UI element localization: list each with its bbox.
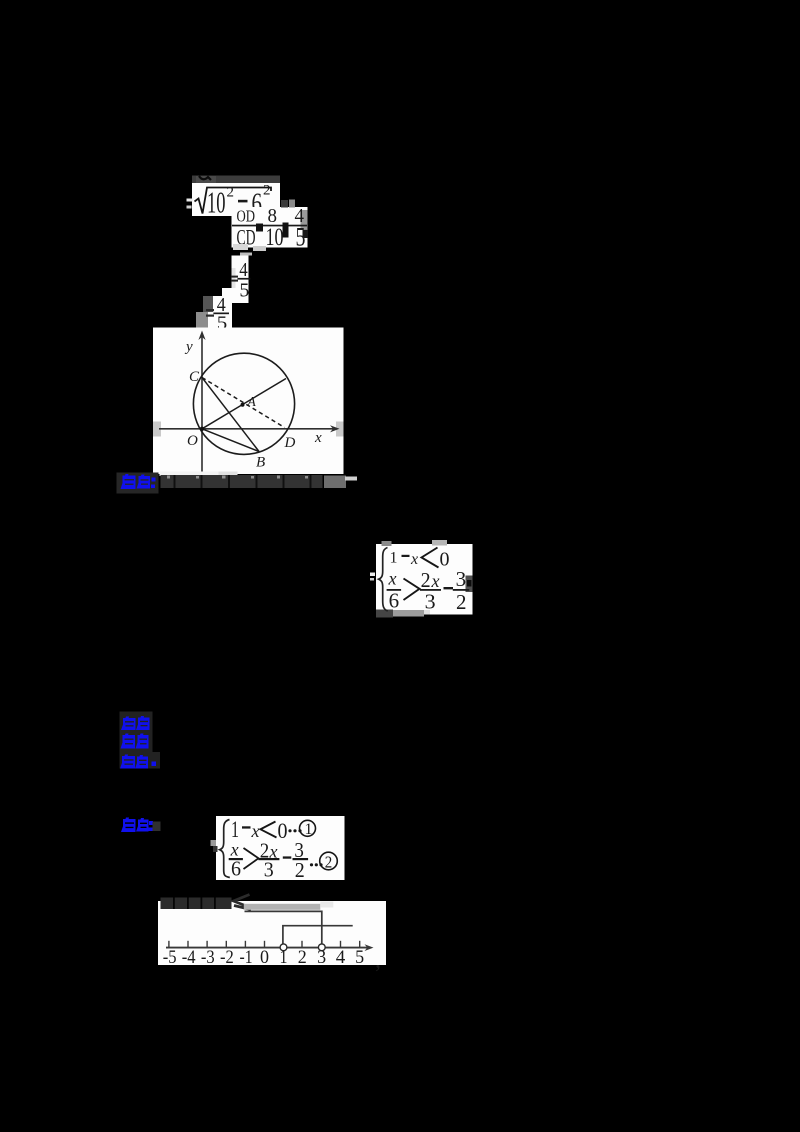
glyph row straddling top edge bbox=[161, 898, 232, 910]
chord O to upper right (diameter) bbox=[202, 379, 286, 429]
svg-text:2: 2 bbox=[295, 858, 305, 882]
svg-text:0: 0 bbox=[440, 549, 450, 571]
system2 brace bbox=[220, 820, 230, 878]
squiggle in strip bbox=[199, 176, 211, 180]
svg-text:6: 6 bbox=[389, 589, 400, 613]
radical sign bbox=[195, 188, 272, 214]
gray text row right of blue label bbox=[160, 472, 219, 477]
number line white box bbox=[158, 901, 386, 965]
chord C to B bbox=[202, 378, 259, 452]
O dot bbox=[200, 427, 204, 431]
svg-text:3: 3 bbox=[317, 948, 326, 968]
svg-text:5: 5 bbox=[355, 948, 364, 968]
lower bracket (x>1) bbox=[283, 926, 353, 944]
svg-text:2: 2 bbox=[298, 948, 307, 968]
svg-text:10: 10 bbox=[266, 224, 284, 251]
gray frags top right of box B bbox=[281, 200, 288, 208]
long fraction bar bbox=[232, 225, 307, 227]
bottom edge frags of box B bbox=[233, 244, 248, 250]
svg-text:5: 5 bbox=[296, 223, 306, 252]
svg-text:B: B bbox=[256, 455, 265, 471]
gray strip above sqrt box bbox=[192, 176, 280, 184]
white box system 2 bbox=[216, 816, 345, 880]
ticks bbox=[169, 941, 360, 948]
svg-text:1: 1 bbox=[231, 817, 239, 842]
gray specks left of system2 bbox=[211, 840, 217, 846]
blue three-row block bbox=[120, 712, 153, 769]
svg-text:6: 6 bbox=[231, 857, 241, 881]
right edge gray of box B bbox=[301, 210, 308, 229]
svg-text:x: x bbox=[251, 821, 260, 841]
svg-text:x: x bbox=[314, 430, 322, 446]
svg-text:0: 0 bbox=[278, 818, 288, 843]
svg-text:A: A bbox=[247, 394, 257, 409]
svg-text:3: 3 bbox=[264, 857, 274, 881]
center dot A bbox=[241, 403, 245, 407]
svg-text:x: x bbox=[431, 571, 440, 591]
svg-text:4: 4 bbox=[239, 259, 248, 281]
circle bbox=[193, 353, 294, 454]
svg-text:-4: -4 bbox=[182, 948, 196, 968]
y axis bbox=[201, 333, 203, 473]
svg-text:2: 2 bbox=[325, 852, 333, 871]
svg-text:2: 2 bbox=[456, 590, 467, 614]
right notch of system1 bbox=[466, 576, 473, 593]
white box D =4/5 lower bbox=[208, 296, 233, 329]
svg-text:3: 3 bbox=[456, 567, 467, 591]
upper bracket (x<3) bbox=[245, 911, 322, 944]
svg-text:1: 1 bbox=[390, 550, 398, 567]
big white diagram box bbox=[153, 328, 344, 475]
svg-text:,: , bbox=[375, 948, 381, 974]
axis numbers bbox=[163, 948, 364, 968]
svg-text:-1: -1 bbox=[240, 948, 253, 968]
svg-text:2: 2 bbox=[421, 568, 431, 592]
svg-text:0: 0 bbox=[260, 948, 269, 968]
svg-text:4: 4 bbox=[336, 948, 346, 968]
blue label 2 bbox=[121, 818, 153, 833]
svg-text:1: 1 bbox=[280, 948, 288, 968]
svg-text:O: O bbox=[187, 433, 198, 449]
svg-text:5: 5 bbox=[239, 279, 249, 301]
gray bar bbox=[244, 904, 320, 910]
white specks left of system1 bbox=[370, 573, 375, 577]
svg-text:-2: -2 bbox=[220, 948, 234, 968]
white box C =4/5 upper bbox=[232, 256, 249, 304]
svg-text:1: 1 bbox=[305, 821, 313, 838]
equals blobs bbox=[256, 224, 263, 232]
x axis bbox=[159, 428, 336, 430]
system1 brace bbox=[379, 548, 388, 612]
svg-text:3: 3 bbox=[425, 589, 436, 613]
axis line bbox=[166, 947, 369, 949]
chord O to B bbox=[202, 429, 259, 452]
open circles at 1 and 3 bbox=[280, 944, 287, 951]
svg-text:C: C bbox=[189, 369, 200, 385]
svg-text:2: 2 bbox=[227, 185, 235, 201]
svg-text:10: 10 bbox=[207, 185, 226, 220]
svg-text:y: y bbox=[184, 339, 193, 355]
svg-text:-3: -3 bbox=[201, 948, 215, 968]
svg-text:x: x bbox=[410, 551, 418, 568]
gray frags below system1 bbox=[376, 610, 393, 618]
white box A sqrt(10^2-6^2) bbox=[192, 183, 280, 216]
svg-text:2: 2 bbox=[263, 183, 271, 199]
blue label row under diagram bbox=[117, 473, 159, 494]
dashed C to D bbox=[202, 378, 285, 428]
svg-text:-5: -5 bbox=[163, 948, 177, 968]
svg-text:x: x bbox=[388, 569, 397, 589]
white box system 1 bbox=[376, 544, 473, 615]
edge specks on x axis ends bbox=[153, 422, 161, 437]
svg-text:D: D bbox=[284, 435, 296, 451]
svg-text:OD: OD bbox=[237, 206, 256, 225]
white box B OD/CD fractions bbox=[232, 207, 308, 248]
fragment equals left of box A bbox=[187, 199, 193, 202]
